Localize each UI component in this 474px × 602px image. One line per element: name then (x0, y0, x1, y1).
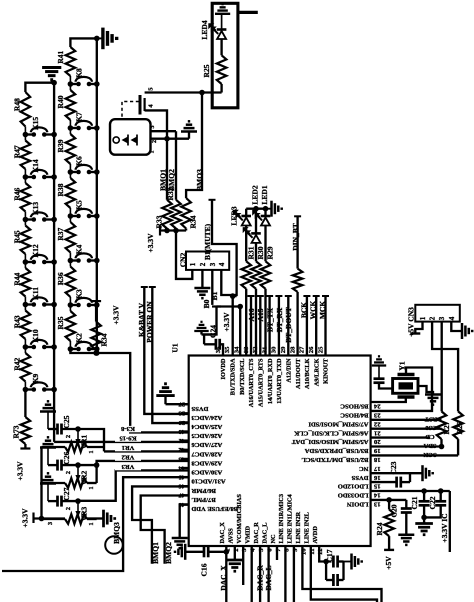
svg-text:20: 20 (373, 438, 380, 445)
svg-text:45: 45 (178, 474, 185, 481)
svg-text:LED2: LED2 (251, 185, 260, 204)
svg-text:19: 19 (373, 447, 380, 454)
wire net A16 (U1 pin 33) (248, 295, 255, 297)
resistor R31 (245, 226, 247, 262)
svg-text:A10/BCLK: A10/BCLK (304, 358, 311, 389)
resistor R43 (21, 311, 31, 340)
svg-text:MCK: MCK (318, 301, 327, 319)
svg-text:3: 3 (47, 522, 54, 525)
resistor R73 (24, 390, 26, 418)
key switch K12 (23, 259, 29, 265)
wire chain A top (25, 83, 54, 92)
wire B5/HOSC (pin 24) to crystal (371, 398, 406, 402)
capacitor C24 (216, 339, 220, 350)
svg-text:30: 30 (271, 346, 278, 353)
pin 41 A27/ADC6 (181, 439, 189, 441)
svg-text:K3: K3 (75, 289, 84, 299)
svg-text:K8: K8 (75, 68, 84, 78)
wire LED common cathode (246, 208, 265, 210)
wire VR3 to U1 pin 44 (78, 470, 189, 500)
key switch K15 (23, 132, 29, 138)
svg-text:BMQ3: BMQ3 (112, 522, 121, 544)
svg-text:R30: R30 (256, 246, 265, 259)
wire net MCK (U1 pin 25) (322, 295, 329, 297)
svg-text:R27: R27 (442, 421, 451, 434)
svg-text:K4: K4 (75, 244, 84, 254)
ground (CN3) (462, 323, 472, 339)
svg-text:AVSS: AVSS (228, 528, 235, 544)
svg-text:CN2: CN2 (179, 252, 188, 267)
key switch K2 (68, 346, 74, 352)
svg-text:R37: R37 (56, 227, 65, 240)
svg-text:R32: R32 (166, 187, 175, 200)
power +5V (R24) (384, 549, 394, 551)
svg-text:B2/USB_DM/TXD/SCL: B2/USB_DM/TXD/SCL (301, 456, 369, 463)
svg-text:C16: C16 (200, 563, 209, 576)
svg-text:1: 1 (88, 450, 95, 453)
svg-text:A26/ADC5: A26/ADC5 (191, 432, 222, 439)
svg-text:R43: R43 (13, 315, 22, 328)
wire R29 to U1 (264, 289, 266, 356)
svg-text:R41: R41 (56, 50, 65, 63)
svg-text:A25/ADC4: A25/ADC4 (191, 423, 222, 430)
capacitor C17 (pair) (325, 562, 327, 581)
ground (crystal) (425, 395, 441, 405)
svg-text:BMQ3: BMQ3 (195, 169, 204, 191)
connector CN3 (415, 305, 460, 322)
capacitor C18 (372, 356, 386, 365)
svg-text:K3-8: K3-8 (120, 425, 135, 432)
wire net label VR3 (115, 464, 141, 470)
svg-text:VR3: VR3 (121, 463, 135, 470)
svg-text:1: 1 (419, 316, 427, 320)
power +3.3V (VR bottom) (32, 513, 34, 524)
ground (C27) (40, 473, 56, 483)
resistor R27 (437, 411, 447, 439)
wire VR3 right to ground (87, 517, 103, 519)
svg-text:A5/SPIM_MISO/SDI_DAT: A5/SPIM_MISO/SDI_DAT (291, 438, 368, 445)
resistor R35 (66, 311, 76, 341)
svg-text:4: 4 (448, 316, 456, 320)
svg-text:DAC_X: DAC_X (219, 565, 228, 591)
wire chain B top (70, 38, 96, 47)
ground (C24) (202, 333, 217, 335)
svg-text:R35: R35 (56, 316, 65, 329)
capacitor C22 (440, 491, 442, 501)
svg-text:A7/SPIM_MOSI/SDI: A7/SPIM_MOSI/SDI (308, 420, 369, 427)
pin 46 B6/PMR (181, 485, 189, 487)
wire +3.3V to pin 34 (217, 307, 241, 356)
wire pull-up bar to CN2 pin 1 (176, 231, 192, 279)
svg-text:R48: R48 (13, 98, 22, 111)
svg-text:C24: C24 (209, 325, 218, 338)
wire BMQ3 to U1 pin 45 (2, 477, 189, 571)
potentiometer VR1 (75, 426, 81, 432)
wire net CS0 (U1 pin 21) (371, 428, 442, 430)
svg-text:LED1: LED1 (260, 185, 269, 204)
jack pin 4 wire (145, 110, 167, 138)
power +5V (CN3) (410, 332, 420, 334)
svg-text:1: 1 (88, 486, 95, 489)
wire CN3 pin 2 to R26 (432, 322, 458, 412)
svg-text:K14: K14 (31, 159, 40, 173)
resistor R48 (21, 92, 31, 127)
LED LED4 (217, 28, 227, 31)
resistor R32 (171, 200, 181, 229)
wire B1(MUTE) to U1 pin 35 (233, 296, 237, 355)
svg-text:14/UART0_RXD: 14/UART0_RXD (267, 358, 274, 404)
resistor R40 (66, 90, 76, 120)
wire CN3 pin 3 to R27 (441, 322, 443, 412)
wire DAC_R (pin 5) (259, 546, 261, 602)
connector CN2 (186, 252, 229, 270)
svg-text:16: 16 (373, 474, 380, 481)
svg-text:R34: R34 (100, 333, 109, 346)
svg-text:26: 26 (308, 346, 315, 353)
key switch K11 (23, 302, 29, 308)
svg-text:VR2: VR2 (121, 454, 135, 461)
svg-text:A11/DOUT: A11/DOUT (295, 358, 302, 389)
wire DAC_L (pin 6) (267, 546, 269, 602)
pin 47 B7/PML (181, 494, 189, 496)
wire bus B join (96, 349, 98, 353)
power +3.3V (below R73) (20, 447, 30, 449)
svg-text:40: 40 (178, 428, 185, 435)
wire net BMQ2 (U1 pin 47) (141, 496, 189, 564)
svg-text:B7/PML: B7/PML (191, 496, 216, 503)
svg-text:18: 18 (373, 456, 380, 463)
svg-text:LINE IN2L: LINE IN2L (304, 512, 311, 543)
wire LINE IN2L (pin 11) (311, 546, 377, 602)
wire net SDA (U1 pin 19) (371, 445, 442, 447)
svg-text:A12/DIN: A12/DIN (285, 358, 292, 383)
wire R25 to jack pin 5 (220, 84, 222, 93)
svg-text:R47: R47 (13, 145, 22, 158)
svg-text:B8/EFUSE VDD: B8/EFUSE VDD (191, 505, 238, 512)
ground (DVSS) (156, 384, 174, 396)
ground (C20) (398, 535, 414, 545)
svg-text:B1/TXD/SDA: B1/TXD/SDA (230, 358, 237, 395)
svg-text:R26: R26 (455, 421, 464, 434)
svg-text:B0/TXD/SCL: B0/TXD/SCL (239, 359, 246, 395)
wire net BCK (U1 pin 27) (303, 295, 310, 297)
svg-text:C23: C23 (389, 461, 398, 474)
pin 39 A25/ADC4 (181, 421, 189, 423)
svg-text:A15: A15 (256, 308, 265, 321)
wire VR1 to U1 pin 42 (104, 450, 189, 452)
svg-text:R31: R31 (247, 246, 256, 259)
svg-text:2: 2 (65, 471, 72, 474)
svg-text:2: 2 (429, 316, 437, 320)
wire net BT_TX (U1 pin 31) (266, 295, 273, 297)
key switch K8 (68, 81, 74, 87)
svg-text:BCK: BCK (299, 302, 308, 318)
svg-text:47: 47 (178, 492, 185, 499)
svg-text:LINE IN2R: LINE IN2R (295, 511, 302, 543)
key switch K4 (68, 258, 74, 264)
wire net label K3-8 (115, 426, 141, 432)
wire stub (box top right) (238, 11, 258, 14)
svg-text:DAC_X: DAC_X (219, 522, 226, 544)
wire +3.3V down to C24 rail (204, 307, 216, 345)
key switch K10 (23, 344, 29, 350)
wire LDO33DO (pin 14) to +3.3V IC (371, 490, 450, 492)
wire net CD (U1 pin 20) (371, 436, 430, 438)
IC U1 (189, 356, 371, 547)
svg-text:R45: R45 (13, 230, 22, 243)
svg-text:1: 1 (150, 151, 156, 154)
wire net RST (U1 pin 22) (371, 419, 442, 421)
svg-text:A31/ADC10: A31/ADC10 (191, 478, 226, 485)
svg-text:A24/ADC3: A24/ADC3 (191, 414, 222, 421)
svg-text:K13: K13 (31, 202, 40, 216)
jack pin 5 wire (145, 91, 202, 93)
svg-text:35: 35 (224, 346, 231, 353)
wire net BMQ1 (U1 pin 46) (132, 486, 189, 563)
ground (C21/C22) (421, 515, 427, 521)
resistor R44 (21, 268, 31, 297)
key switch K13 (23, 217, 29, 223)
svg-text:32: 32 (252, 346, 259, 353)
capacitor C20 (405, 500, 407, 509)
svg-text:28: 28 (289, 346, 296, 353)
svg-text:DAC_L: DAC_L (264, 565, 273, 590)
svg-text:A27/ADC6: A27/ADC6 (191, 441, 222, 448)
svg-text:DVSS: DVSS (351, 474, 368, 481)
svg-text:29: 29 (280, 346, 287, 353)
svg-text:27: 27 (299, 346, 306, 353)
key switch K14 (23, 174, 29, 180)
svg-text:33: 33 (243, 346, 250, 353)
svg-text:1: 1 (88, 522, 95, 525)
power +3.3V (pull-ups) (159, 226, 161, 236)
svg-text:K10: K10 (31, 329, 40, 343)
svg-text:R73: R73 (12, 425, 21, 438)
potentiometer VR2 (75, 462, 81, 468)
capacitor C19 / ground (418, 386, 433, 395)
svg-text:VCOM/MICBIAS: VCOM/MICBIAS (236, 494, 243, 544)
svg-text:K6: K6 (75, 156, 84, 166)
svg-text:3: 3 (438, 316, 446, 320)
svg-text:39: 39 (178, 419, 185, 426)
svg-text:B5/HOSC: B5/HOSC (340, 403, 368, 410)
resistor R33 (162, 200, 172, 229)
svg-text:CD: CD (425, 433, 435, 440)
svg-text:BT_DOUT: BT_DOUT (284, 307, 293, 342)
wire VCOM (pin 3) (242, 546, 244, 585)
wire net BMQ3 (jack) (186, 93, 202, 199)
svg-text:BMQ2: BMQ2 (164, 542, 173, 564)
wire net POWER ON (U1 pin 39) (149, 286, 156, 288)
svg-text:C22: C22 (428, 496, 437, 509)
wire CN2 pin 4 to B1(MUTE) (221, 270, 236, 295)
wire R31 to U1 pin 34 (245, 289, 247, 356)
wire NC (pin 7) (276, 546, 278, 560)
capacitor C21 (423, 491, 425, 501)
wire CN2 pin 2 to ground (201, 270, 203, 288)
wire net BMQ1 (jack) (166, 139, 168, 200)
svg-text:3: 3 (150, 126, 156, 129)
svg-text:23: 23 (373, 412, 380, 419)
svg-text:+5V: +5V (384, 556, 393, 570)
svg-text:CS0: CS0 (425, 424, 436, 431)
svg-text:+3.3V: +3.3V (146, 233, 155, 253)
svg-text:1: 1 (189, 262, 197, 266)
svg-text:25: 25 (317, 346, 324, 353)
resistor R37 (66, 222, 76, 253)
svg-text:+3.3V: +3.3V (21, 508, 30, 528)
capacitor C25 (58, 424, 62, 435)
svg-text:WCK: WCK (309, 300, 318, 319)
svg-text:17: 17 (373, 465, 380, 472)
wire net DIN_BT with resistor (U1 pin 28) (294, 215, 301, 217)
ground (keypad chain B top) (97, 37, 102, 39)
pin 40 A26/ADC5 (181, 430, 189, 432)
microphone BMQ3 (105, 536, 123, 554)
ground (VR3 / BMQ3) (104, 510, 115, 528)
resistor R41 (66, 47, 76, 76)
svg-text:B4/HOSC: B4/HOSC (340, 412, 368, 419)
pin 37 DVSS (181, 403, 189, 405)
ground (C26) (40, 437, 56, 447)
svg-text:A15/UART0_RTS: A15/UART0_RTS (258, 358, 265, 407)
svg-text:A30/ADC9: A30/ADC9 (191, 469, 222, 476)
wire LINE IN1L (pin 9) (293, 546, 295, 602)
svg-text:13: 13 (373, 501, 380, 508)
svg-text:A28/ADC7: A28/ADC7 (191, 450, 222, 457)
svg-text:41: 41 (178, 437, 185, 444)
svg-text:POWER ON: POWER ON (145, 301, 154, 343)
wire DAC_X (pin 1) (225, 546, 227, 602)
svg-text:A6/SPIM_CLK/SDI_CLK: A6/SPIM_CLK/SDI_CLK (293, 429, 368, 436)
jack pin 3 wire (151, 130, 177, 132)
potentiometer VR3 (75, 498, 81, 504)
wire R30 to U1 (255, 289, 257, 356)
svg-text:U1: U1 (171, 343, 180, 352)
svg-text:R36: R36 (56, 272, 65, 285)
svg-text:BT_RX: BT_RX (275, 307, 284, 332)
svg-text:21: 21 (374, 429, 381, 436)
svg-text:K2: K2 (75, 333, 84, 343)
wire net label K9-15 (115, 435, 141, 441)
wire net BMQ2 (jack) (175, 131, 177, 200)
resistor R38 (66, 178, 76, 208)
key switch K9 (23, 387, 29, 393)
svg-text:LINE IN1R/MIC3: LINE IN1R/MIC3 (278, 494, 285, 544)
wire K9-15 to U1 pin 41 (54, 441, 189, 443)
svg-text:NC: NC (359, 465, 369, 472)
LED indicator box (212, 3, 238, 108)
jack switch contacts (139, 95, 142, 115)
svg-text:36: 36 (215, 346, 222, 353)
svg-text:K9: K9 (31, 373, 40, 383)
svg-text:K9-15: K9-15 (119, 435, 137, 442)
resistor R47 (21, 141, 31, 170)
wire VR2 to U1 pin 43 (78, 464, 97, 466)
pin 48 B8/EFUSE VDD (181, 503, 189, 505)
svg-text:R40: R40 (56, 95, 65, 108)
svg-text:LED3: LED3 (230, 206, 239, 225)
wire U1 pin 48 to ground (180, 505, 189, 538)
svg-text:R42: R42 (13, 357, 22, 370)
resistor R39 (66, 134, 76, 164)
svg-text:DAC_L: DAC_L (261, 523, 268, 544)
svg-text:46: 46 (178, 483, 185, 490)
wire net A15 (U1 pin 32) (257, 295, 264, 297)
ground (C17) (344, 561, 352, 563)
svg-text:14: 14 (373, 492, 380, 499)
wire chain B bottom to K3-8 net (70, 349, 188, 432)
svg-text:15: 15 (373, 483, 380, 490)
wire net BT_RX (U1 pin 30) (275, 295, 282, 297)
bus A (K9-15 net) (53, 83, 55, 442)
ground (C25) (40, 401, 56, 411)
pin 38 A24/ADC3 (181, 412, 189, 414)
wire net +3.3V IC (449, 491, 451, 552)
svg-text:BMQ1: BMQ1 (151, 542, 160, 564)
wire +3.3V pull-up bar (160, 229, 186, 231)
svg-text:+3.3V: +3.3V (112, 305, 121, 325)
wire VMID (pin 4) (251, 546, 253, 602)
svg-text:C26: C26 (62, 451, 71, 464)
key switch K5 (68, 213, 74, 219)
svg-text:SDA: SDA (423, 442, 436, 449)
capacitor C26 (58, 460, 62, 471)
wire AVSS (pin 2) to ground (234, 546, 236, 560)
ground (AVSS) (226, 560, 244, 571)
svg-text:R39: R39 (56, 139, 65, 152)
svg-text:VR1: VR1 (122, 444, 135, 451)
wire net K&BAT V (U1 pin 38) (141, 286, 148, 288)
resistor R42 (21, 353, 31, 382)
svg-text:+3.3V: +3.3V (222, 312, 231, 332)
wire CN3 pin 1 to +5V (415, 322, 422, 334)
resistor R45 (21, 226, 31, 255)
ground (pin 48) (172, 538, 188, 548)
svg-text:38: 38 (178, 410, 185, 417)
resistor R46 (21, 183, 31, 212)
ground (jack) (181, 121, 197, 131)
svg-text:K12: K12 (31, 244, 40, 258)
resistor R29 (264, 226, 266, 262)
svg-text:31: 31 (261, 347, 268, 354)
key switch K7 (68, 125, 74, 131)
svg-text:K15: K15 (31, 117, 40, 131)
power +3.3V (IOVDD) (212, 305, 221, 307)
svg-text:B6/PMR: B6/PMR (191, 487, 216, 494)
svg-text:A29/ADC8: A29/ADC8 (191, 460, 222, 467)
svg-text:C27: C27 (62, 487, 71, 500)
svg-text:13/UART0_TXD: 13/UART0_TXD (276, 358, 283, 404)
ground (LED4) (215, 4, 230, 14)
svg-text:2: 2 (65, 435, 72, 438)
ground (pin16) (423, 465, 433, 481)
wire LED4 to R25 (220, 39, 222, 55)
svg-text:VR2: VR2 (80, 470, 89, 485)
VR left bus wire (40, 447, 42, 519)
svg-text:KINOUT: KINOUT (323, 358, 330, 384)
LED LED2 (251, 232, 261, 235)
svg-text:LDOIN: LDOIN (347, 501, 369, 508)
svg-text:R25: R25 (202, 64, 211, 77)
resistor R30 (255, 243, 257, 261)
pin 43 A29/ADC8 (181, 458, 189, 460)
wire CN2 pin 3 net B1 (211, 270, 213, 305)
svg-text:44: 44 (178, 464, 185, 471)
pin 45 A31/ADC10 (181, 476, 189, 478)
pin 42 A28/ADC7 (181, 449, 189, 451)
power +3.3V (R34) (91, 300, 101, 302)
